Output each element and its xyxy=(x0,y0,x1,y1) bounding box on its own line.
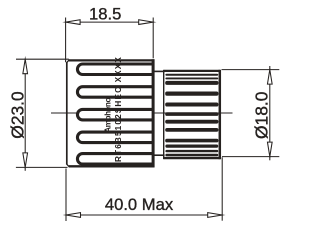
extension line top xyxy=(222,69,280,71)
knurl rib 7 xyxy=(165,112,218,116)
dimension line overshoot top xyxy=(269,66,271,70)
neck top edge xyxy=(154,70,164,72)
knurl rib 14 xyxy=(163,157,220,159)
arrow right of 40.0 Max xyxy=(208,213,223,218)
arrow bottom of D23.0 xyxy=(23,153,28,168)
coupling knurl left edge xyxy=(163,70,165,159)
wire cap right edge xyxy=(152,59,155,167)
extension line bottom xyxy=(16,166,68,168)
extension line right xyxy=(221,157,223,220)
knurl rib 9 xyxy=(165,128,218,132)
dimension line xyxy=(269,83,271,143)
arrow top of D23.0 xyxy=(23,59,28,73)
dimension D23.0 xyxy=(16,59,69,171)
cap knurl slot 5 xyxy=(77,154,154,165)
arrow left of 40.0 Max xyxy=(66,213,81,218)
svg-text:Amphenol: Amphenol xyxy=(104,96,113,133)
connector cap body (left knob) xyxy=(66,59,154,167)
dimension 18.5 xyxy=(66,18,154,63)
svg-text:18.5: 18.5 xyxy=(89,5,121,24)
knurl rib 4 xyxy=(165,81,218,85)
dimension 40.0 Max xyxy=(66,157,222,221)
knurl rib 3 xyxy=(165,78,218,80)
extension line right xyxy=(152,18,154,59)
cap knurl slot 2 xyxy=(77,87,154,98)
arrow bottom of D18.0 xyxy=(267,142,272,157)
wire cap bottom-left chamfer xyxy=(66,164,69,167)
knurl rib 11 xyxy=(165,145,218,148)
extension line left xyxy=(65,169,67,222)
cap knurl slot 3 xyxy=(77,109,154,120)
arrow right of 18.5 xyxy=(139,20,154,25)
center line right segment xyxy=(152,112,233,114)
extension line top xyxy=(16,58,69,60)
arrow top of D18.0 xyxy=(267,70,272,85)
knurl rib 6 xyxy=(165,103,218,107)
dimension line xyxy=(24,73,26,154)
dimension line overshoot xyxy=(24,167,26,170)
svg-text:40.0 Max: 40.0 Max xyxy=(105,195,174,214)
extension line bottom xyxy=(222,156,279,158)
knurl rib 10 xyxy=(165,139,218,143)
center line left segment xyxy=(51,112,78,114)
svg-text:Ø18.0: Ø18.0 xyxy=(251,92,271,139)
wire cap left edge xyxy=(66,62,68,164)
neck bottom edge xyxy=(154,154,164,156)
knurl rib 13 xyxy=(165,154,218,156)
knurl rib 8 xyxy=(165,120,218,124)
dimension line overshoot bottom xyxy=(269,157,271,161)
dimension line xyxy=(79,21,140,23)
cap knurl slot 1 xyxy=(77,64,154,75)
extension line left xyxy=(65,18,67,63)
wire cap top edge xyxy=(69,59,155,61)
knurl rib 12 xyxy=(165,150,218,152)
dimension D18.0 xyxy=(222,66,280,160)
wire cap top-left chamfer xyxy=(66,60,69,63)
coupling knurl right edge xyxy=(219,70,222,160)
knurl rib 1 xyxy=(163,70,220,72)
svg-text:Ø23.0: Ø23.0 xyxy=(7,91,27,138)
arrow left of 18.5 xyxy=(66,20,81,25)
dimension line xyxy=(80,214,209,216)
wire cap bottom edge xyxy=(69,165,155,167)
cap knurl slot 4 xyxy=(77,132,154,143)
knurl rib 2 xyxy=(165,74,218,76)
knurl rib 5 xyxy=(165,92,218,96)
coupling knurl ribs xyxy=(163,70,220,160)
